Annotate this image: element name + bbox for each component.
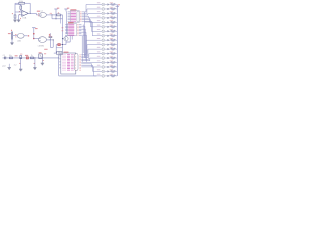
right rail vertical [116,5,118,76]
resistor R3 vertical on left [14,12,16,20]
wire fan bottom bank [84,40,102,76]
capacitor C4 [49,33,53,37]
power symbol VCC1 [54,9,57,19]
component box DIP [57,51,62,54]
LED row 2 [97,7,118,11]
wire vertical 58.7 [58,55,60,76]
wire 39.9 to 53.2 [50,39,53,41]
node out junction [50,39,51,40]
diode D1 red box [58,44,61,46]
LED row 4 [97,16,118,20]
wire op-amp output [28,13,40,15]
label red speck U1B [50,12,52,15]
pin number 3 red [19,14,20,15]
node bus Q2 [62,38,63,39]
ground mic [10,40,13,45]
wire R1 top [15,4,21,6]
wire feedback down [29,3,31,13]
node 56 junction [55,18,56,19]
label U4 red [70,9,76,10]
ground left [13,20,16,22]
wire inverting input [15,11,22,13]
node chain 20.8 [20,57,21,58]
transistor Q2 circle [64,37,68,41]
wire U3 output [46,39,50,41]
bus vertical B left of ICs [66,11,68,33]
wire long vertical c [81,36,83,62]
LED row 14 [97,60,118,64]
label gray 2 [14,64,17,66]
svg-text:C1: C1 [3,55,5,57]
wire Q2 top [65,35,67,37]
capacitor C1 [5,57,6,60]
LED row 11 [97,47,118,51]
wire U2A output [24,35,28,37]
ground C2 [19,69,22,71]
microphone MK1 [8,30,13,40]
label LM386 gray [38,46,45,48]
LED row 10 [97,42,118,46]
wire U5 bottom stubs [66,36,72,42]
ground stub R6 [8,64,11,70]
wire into box row [54,52,57,54]
wire U1B output [46,14,56,16]
LED row 3 [97,11,118,15]
svg-text:U1A: U1A [22,17,27,20]
IC U5 LM3915 middle [65,24,81,36]
wire horizontal 18.8 [52,18,63,20]
op-amp U1B ellipse [39,13,46,18]
svg-text:out: out [40,10,43,13]
wire bus to Q2 [63,38,64,40]
ground 42.4 [41,63,44,65]
label C1 gray [3,55,5,57]
wire Q2 bottom [65,41,67,45]
label U5 red [68,22,74,23]
ground 34.9 [33,68,36,70]
red mark on bus 1 [33,33,35,35]
label red speck right [44,53,46,54]
wire down 53.2 [52,40,54,47]
label red chain2 [25,55,28,56]
pin number 2 red [19,11,20,12]
stub to ground 34.9 [34,58,35,68]
wire down 50.3 [49,40,51,47]
wire U5 bottom stubs [66,36,72,42]
label red small [44,49,47,50]
pin red dots U2A [14,34,17,37]
ground below op-amp [17,20,20,22]
LED row 1 [97,2,118,6]
wire input node vertical [14,3,16,12]
net marker red x [28,35,29,36]
node chain 34.9 [34,57,35,58]
node output junction [51,14,52,15]
power symbol right rail [116,4,121,6]
node bottom chain [58,57,59,58]
label 1k gray [31,55,33,57]
svg-text:gnd: gnd [2,66,5,68]
wire R2 right [25,2,31,4]
label U6 red [64,52,69,53]
op-amp U2A ellipse [17,33,24,38]
wire C4 stem [49,38,51,40]
power symbol +9V [32,28,35,39]
svg-text:LM386: LM386 [38,46,45,48]
label red chain1 [15,55,18,56]
wire bundle from U5 right pins [79,26,87,62]
bottom rail [59,75,97,77]
power symbol VCC2 [64,9,67,11]
potentiometer RV red [26,57,28,59]
wire horiz 47.8 [56,47,62,49]
resistor R6 [10,57,13,59]
LED row 12 [97,51,118,55]
wire 44.6 horizontal [56,44,66,46]
svg-text:2.2: 2.2 [14,64,17,66]
trimpot RV1 box [39,54,43,59]
label Q1 red [37,11,40,12]
label gray gnd text [2,66,5,68]
LED row 8 [97,34,118,38]
resistor R7 [31,57,34,59]
wire noninverting input [19,15,22,20]
label pin1 gray [29,11,30,13]
pin dots U1B [37,13,40,16]
wire R4 to bus [60,14,62,16]
node 62.5 44.6 [62,44,63,45]
bus vertical A twin [61,15,63,24]
LED row 5 [97,20,118,24]
wire long vertical a [82,25,84,54]
op-amp U3 LM386 ellipse [38,37,46,43]
LED row 16 [97,69,118,73]
capacitor C2 hanging [19,54,22,69]
wire vertical 56.2 [55,45,57,54]
wire horiz 47.3 [50,46,53,48]
resistor R2 feedback 100k [19,1,25,4]
resistor R4 [57,12,60,15]
label U5 red [68,22,74,23]
LED row 15 [97,65,118,69]
node 53.2 39.9 [53,39,54,40]
bus vertical A [62,15,64,52]
VCC1 red flag [57,8,59,9]
IC U4 LM3915 top [68,11,85,23]
label left red [11,12,14,15]
wire mic to amp [13,34,18,36]
+9V red flag [35,28,38,29]
node feedback junction [30,13,31,14]
LED row 13 [97,56,118,60]
wire fan top bank [84,5,101,36]
op-amp U1A [22,11,29,20]
label U2A gray [17,40,21,43]
wire drop at 52 [51,15,53,19]
LED row 7 [97,29,118,33]
red mark on bus 2 [33,38,35,40]
stub to ground 42.4 [42,59,43,63]
wire input chain [3,57,59,59]
resistor R1 vertical [20,5,22,12]
wire R2 left to input node [15,2,19,4]
LED row 6 [97,25,118,29]
LED row 17 [97,74,118,78]
wire bus to U3 [34,39,39,40]
VCC2 red flag [67,8,69,9]
net label gray [40,10,43,13]
label red RV1 [39,52,42,53]
IC U6 bottom [59,53,84,74]
svg-text:1k: 1k [31,55,33,57]
pin red dot [19,17,22,20]
label 10u gray [9,55,12,57]
pin red specks left of U5 [62,27,64,31]
LED row 9 [97,38,118,42]
wire long vertical b [83,12,85,58]
